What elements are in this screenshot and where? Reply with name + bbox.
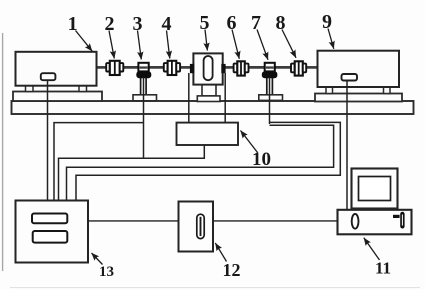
bearing 7 black collar xyxy=(262,71,278,78)
arrow to coupling 4 xyxy=(167,31,170,59)
motor 9 right foot xyxy=(384,87,391,94)
bearing 3 base plate xyxy=(133,95,157,101)
shaft segment coupling4 to sensor5 xyxy=(180,66,192,69)
torque sensor 5 pedestal xyxy=(202,85,216,96)
svg-text:6: 6 xyxy=(227,12,237,34)
shaft segment sensor5 to coupling6 xyxy=(225,66,235,69)
wire: bearing 7 drop xyxy=(269,78,271,125)
arrow to box 12 xyxy=(215,243,226,262)
box 12 capsule slot xyxy=(197,214,204,238)
svg-text:12: 12 xyxy=(223,260,241,280)
motor 9 port xyxy=(342,74,358,81)
bearing 3 black collar xyxy=(136,71,151,78)
svg-text:3: 3 xyxy=(133,13,143,35)
bearing 7 legs xyxy=(266,77,268,95)
box 10 signal conditioner xyxy=(177,123,239,145)
svg-text:4: 4 xyxy=(162,13,172,35)
svg-text:13: 13 xyxy=(99,264,114,280)
arrow to box 10 xyxy=(241,131,258,153)
arrow to motor 1 xyxy=(76,31,93,52)
wire: box13 to box12 xyxy=(88,220,179,222)
motor 9 left foot xyxy=(326,87,333,94)
coupling 4 xyxy=(164,61,180,75)
wire: box13 to box10 bottom (H3) xyxy=(59,145,205,201)
coupling 8 xyxy=(291,61,306,75)
svg-text:8: 8 xyxy=(276,12,286,34)
svg-text:2: 2 xyxy=(105,13,115,35)
motor 9 base plate xyxy=(315,94,402,102)
arrow to bearing 7 xyxy=(257,30,268,60)
wire: box12 to computer unit xyxy=(213,220,338,222)
bearing 7 base plate xyxy=(259,95,283,101)
motor 1 left foot xyxy=(26,86,34,92)
arrow to sensor 5 xyxy=(205,30,207,51)
wire: sensor-5 right hub to box10 xyxy=(224,73,226,123)
box 13 slot 1 xyxy=(32,214,67,224)
bearing 3 legs xyxy=(140,77,142,95)
arrow to coupling 8 xyxy=(282,30,296,58)
coupling 2 xyxy=(106,61,123,75)
motor 1 base plate xyxy=(13,92,102,102)
svg-text:7: 7 xyxy=(251,12,261,34)
arrow to motor 9 xyxy=(328,29,334,49)
arrow to coupling 6 xyxy=(232,30,239,59)
wire: sensor-5 left hub to box10 xyxy=(188,73,190,123)
bearing 3 housing xyxy=(138,63,148,72)
wire: bearing 3 drop xyxy=(143,78,145,159)
bench (test bed) xyxy=(12,101,414,114)
shaft segment coupling8 to motor9 xyxy=(306,66,319,69)
svg-text:5: 5 xyxy=(200,12,210,34)
torque sensor 5 body xyxy=(193,53,222,84)
motor 9 body xyxy=(318,51,400,87)
wire: motor9 port to computer unit xyxy=(346,81,348,210)
computer 11 screen xyxy=(359,177,391,201)
motor 1 port xyxy=(41,73,56,80)
box 13 instrument xyxy=(16,201,89,263)
computer 11 monitor xyxy=(352,169,398,209)
coupling 6 xyxy=(234,61,249,75)
wire: inner loop bearing7 to box13 xyxy=(67,125,334,200)
computer 11 system unit xyxy=(338,210,412,235)
arrow to bearing 3 xyxy=(138,31,142,60)
computer 11 power button xyxy=(352,214,359,229)
torque sensor 5 right hub xyxy=(221,64,225,73)
arrow to computer 11 xyxy=(364,238,380,260)
shaft segment coupling2 to coupling4 xyxy=(123,66,165,69)
bearing 7 housing xyxy=(265,63,275,72)
wire: box13 up and right to bearing-3 drop (H2) xyxy=(54,123,144,201)
scan artifact bottom gray line xyxy=(10,287,420,289)
computer 11 dark bar xyxy=(393,215,400,218)
svg-text:10: 10 xyxy=(252,149,271,170)
arrow to box 13 xyxy=(92,253,103,265)
motor 1 body xyxy=(16,52,97,86)
arrow to coupling 2 xyxy=(109,31,114,59)
svg-text:11: 11 xyxy=(375,259,391,278)
svg-text:1: 1 xyxy=(68,13,78,35)
wire: motor1 port to box13 xyxy=(47,80,49,201)
torque sensor 5 left hub xyxy=(190,64,194,73)
computer 11 drive slot xyxy=(400,212,404,229)
scan artifact left gray line xyxy=(2,33,4,271)
shaft segment coupling6 to coupling8 xyxy=(248,66,292,69)
torque sensor 5 capsule window xyxy=(204,56,213,80)
motor 1 right foot xyxy=(79,86,87,92)
box 12 instrument xyxy=(179,202,214,252)
torque sensor 5 base xyxy=(197,96,220,102)
box 13 slot 2 xyxy=(33,231,68,243)
svg-text:9: 9 xyxy=(322,11,332,33)
shaft segment motor1 to coupling2 xyxy=(96,66,107,69)
wire: outer loop to box13 xyxy=(76,122,340,200)
